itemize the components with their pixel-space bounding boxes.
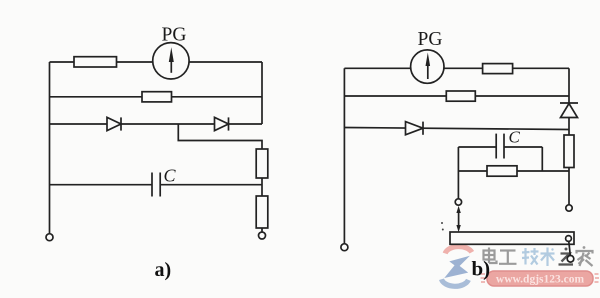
watermark text 术 (541, 248, 555, 267)
svg-text:b): b) (472, 257, 491, 281)
potentiometer track (b) (450, 232, 574, 244)
terminal (a, left) (46, 234, 53, 241)
wire: top row (b) (344, 67, 569, 69)
resistor R2 (a second row) (142, 92, 172, 102)
terminal (below track) (567, 255, 574, 262)
svg-text:PG: PG (162, 25, 187, 46)
terminal (track right inner) (566, 236, 572, 242)
wire: between divider resistors (a) (261, 178, 263, 196)
svg-text:C: C (509, 128, 521, 147)
resistor R6 (b second row) (446, 91, 475, 101)
wire: RC left drop (b) (457, 147, 459, 199)
resistor R5 (b top row) (483, 64, 513, 74)
watermark text 电 (484, 248, 497, 264)
terminal (b, right) (566, 205, 572, 211)
watermark text 家 (577, 246, 593, 266)
wire: second row (b) (344, 95, 569, 97)
tacho-generator PG (a) (153, 43, 189, 79)
capacitor C (b) (496, 134, 504, 159)
wire: diode row (a) (50, 123, 263, 125)
terminal (b, brush left) (455, 199, 461, 205)
wire: left vertical bus (b) (343, 68, 345, 243)
resistor R8 (b RC lower) (487, 166, 517, 176)
watermark text 之 (559, 248, 574, 265)
resistor R1 (a top row) (74, 57, 117, 67)
wire: right vertical top (b) (568, 68, 570, 103)
watermark logo bolt (blue) (444, 256, 470, 278)
svg-text:C: C (164, 166, 177, 186)
resistor R7 (b right) (564, 135, 574, 168)
wire: divider to terminal (a) (261, 228, 263, 232)
watermark text 技 (522, 248, 539, 265)
watermark logo arc bottom (blue) (442, 279, 469, 286)
watermark url box (481, 271, 600, 286)
wire: track tap link (569, 241, 571, 255)
svg-text:a): a) (155, 259, 172, 281)
svg-text:www.dgjs123.com: www.dgjs123.com (496, 274, 585, 286)
wire: right vertical middle (b) (568, 118, 570, 136)
wire: capacitor row (a) (50, 184, 263, 186)
terminal (a, right) (259, 232, 266, 239)
adjustment arrow (double head) (456, 206, 460, 232)
tacho-generator PG (b) (411, 50, 444, 83)
wire: RC lower row (b) (458, 170, 569, 172)
wire: step from diode row to divider (a) (178, 124, 262, 149)
watermark logo arc top (pink) (445, 246, 472, 253)
wire: left vertical bus (a) (49, 62, 51, 234)
resistor R4 (a divider lower) (256, 196, 268, 228)
wire: diode row (b) (344, 128, 569, 130)
svg-text:PG: PG (418, 29, 443, 50)
diode VD2 (a) (215, 117, 229, 130)
diode VD4 (b right, pointing up) (560, 103, 578, 118)
wire: RC right drop (b) (541, 147, 543, 171)
wire: right vertical top (a) (261, 62, 263, 124)
resistor R3 (a divider upper) (256, 149, 268, 178)
wire: right vertical lower (b) (568, 168, 570, 205)
capacitor C (a) (152, 173, 160, 197)
speckle dots (441, 222, 444, 231)
wire: capacitor branch (b) (458, 146, 542, 148)
wire: top row (a) (50, 61, 263, 63)
diode VD3 (b) (406, 122, 424, 135)
diode VD1 (a) (107, 117, 121, 130)
wire: second row (a) (50, 96, 263, 98)
terminal (b, left) (341, 244, 348, 251)
watermark text 工 (499, 251, 517, 264)
